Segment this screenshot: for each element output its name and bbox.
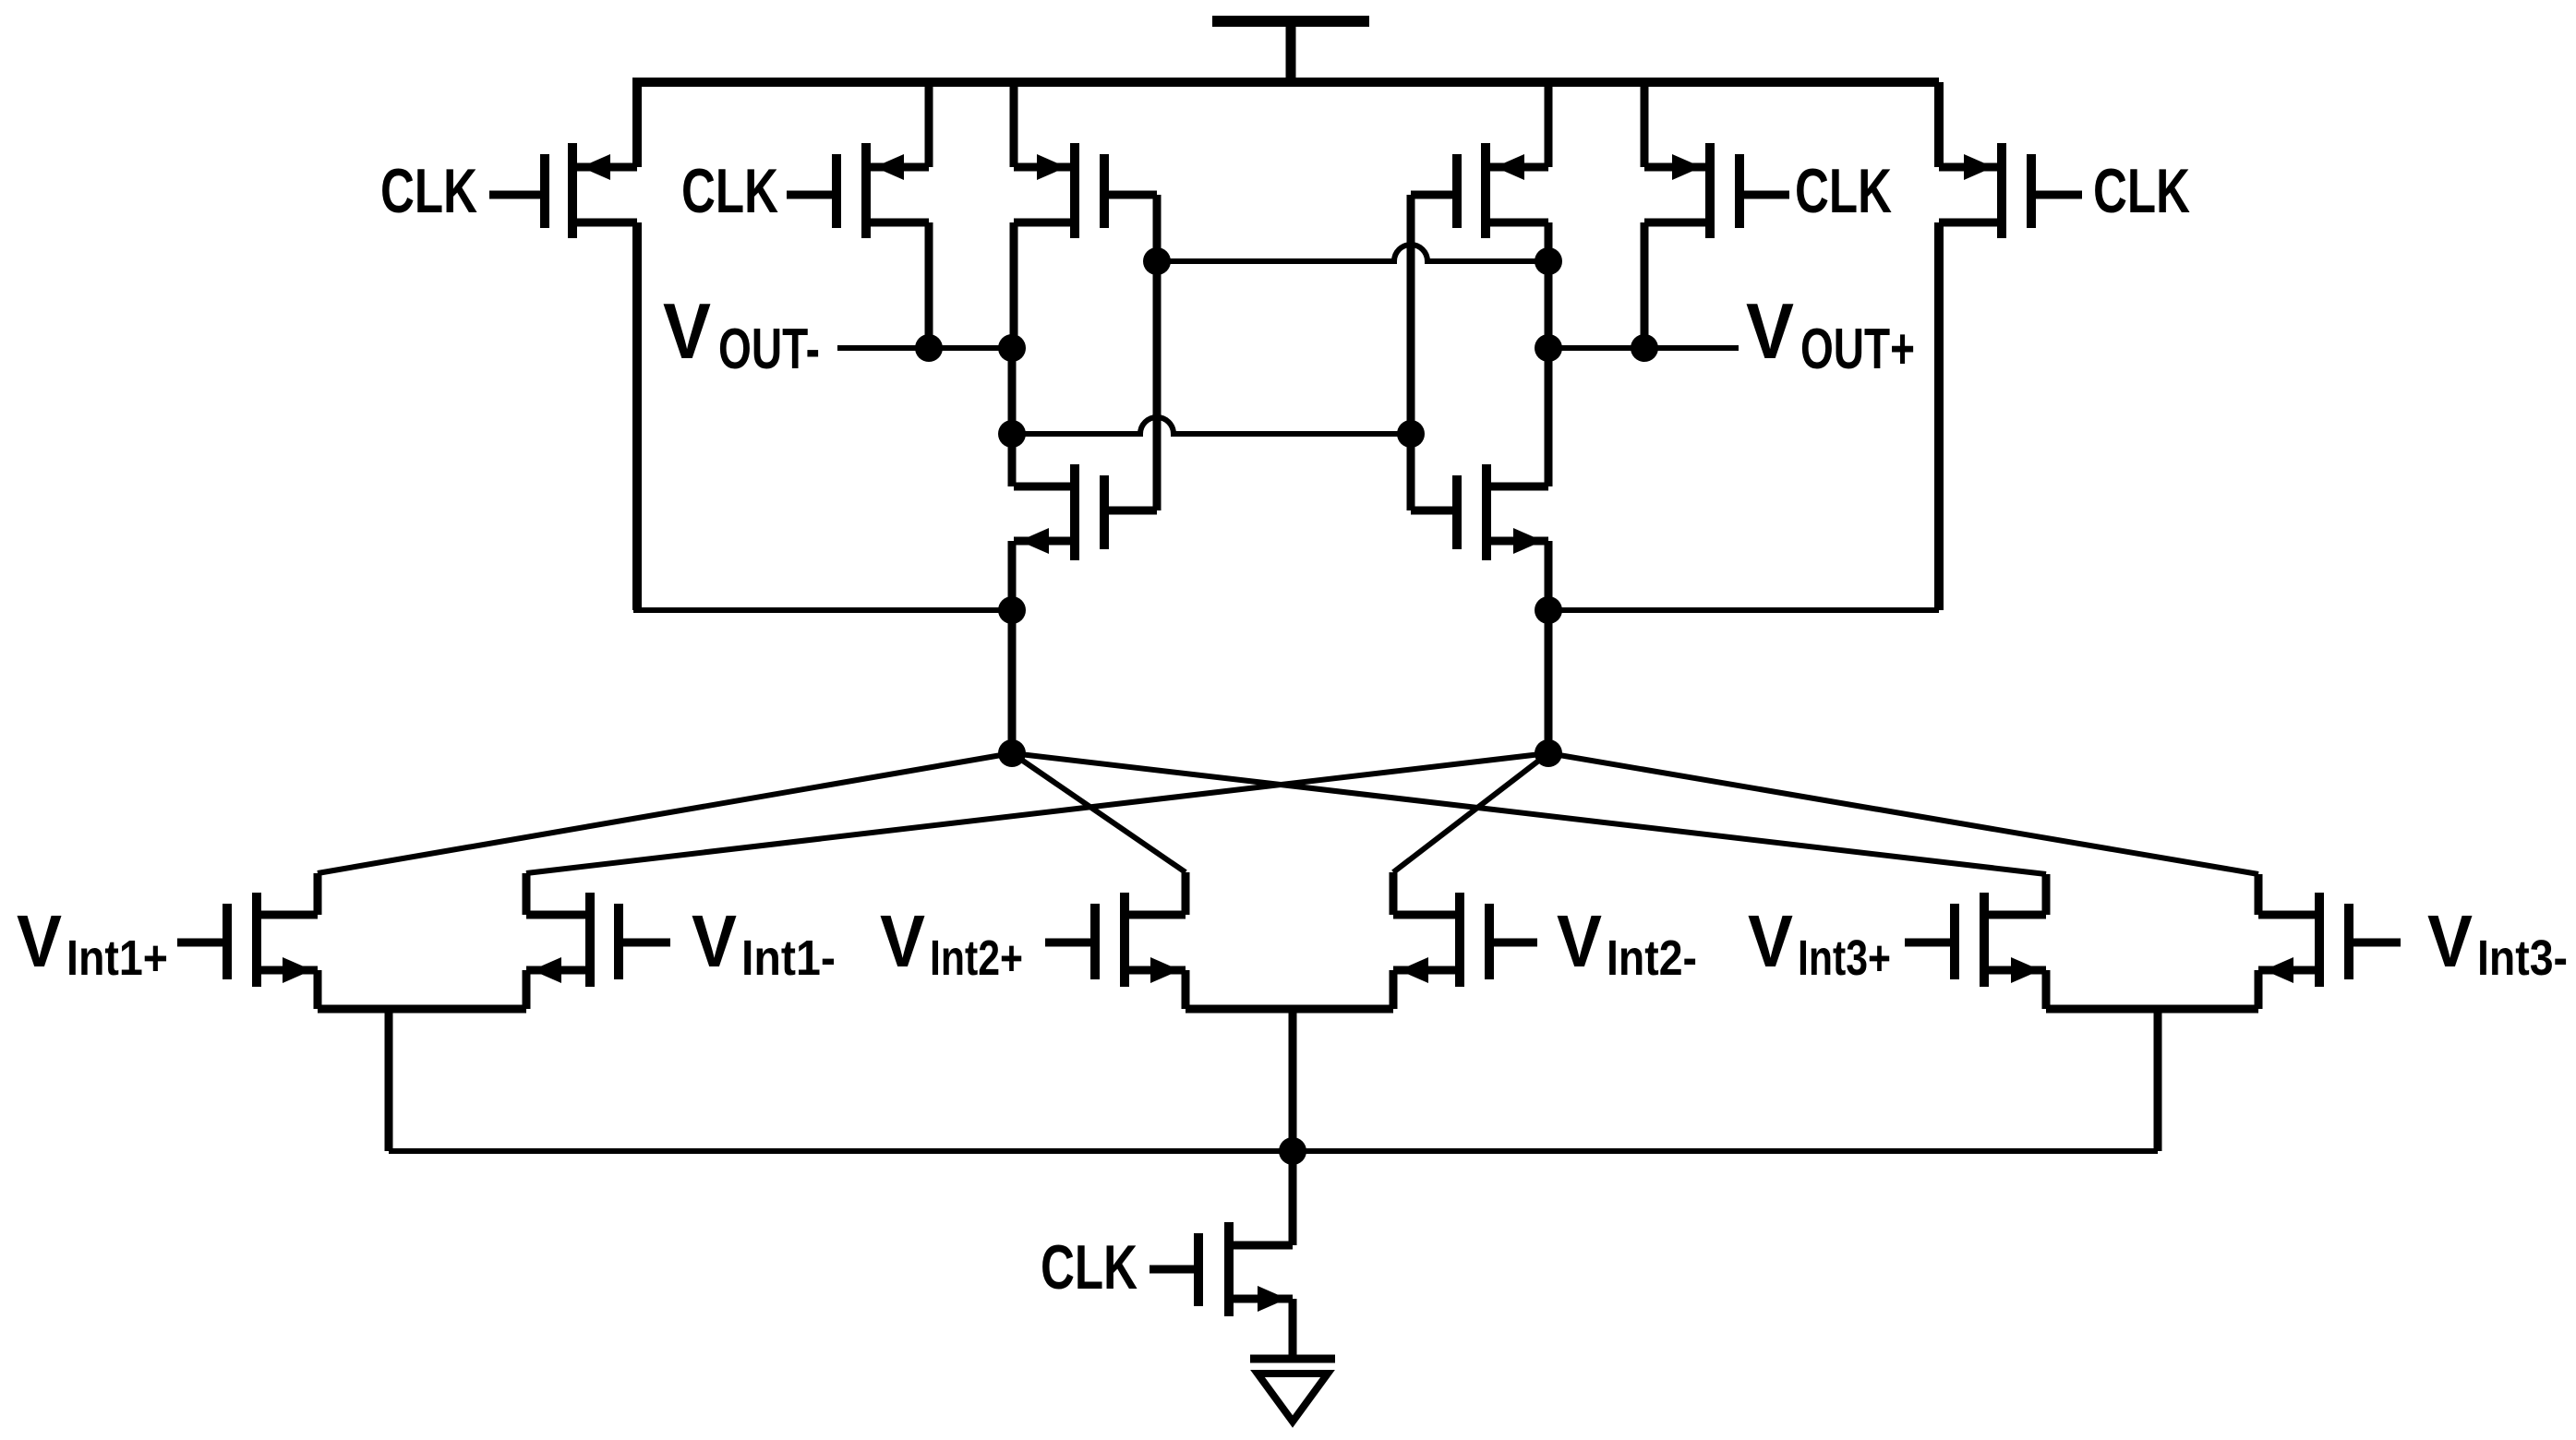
svg-text:Int3-: Int3- — [2477, 930, 2568, 986]
svg-text:Int3+: Int3+ — [1798, 930, 1891, 986]
svg-text:OUT+: OUT+ — [1800, 318, 1915, 381]
svg-text:V: V — [692, 900, 737, 982]
svg-text:Int1+: Int1+ — [66, 930, 168, 986]
svg-text:CLK: CLK — [380, 156, 477, 226]
svg-text:CLK: CLK — [2093, 156, 2190, 226]
svg-text:OUT-: OUT- — [718, 318, 820, 381]
svg-text:Int2+: Int2+ — [930, 930, 1023, 986]
svg-text:V: V — [1557, 900, 1602, 982]
svg-text:V: V — [17, 900, 62, 982]
svg-text:CLK: CLK — [681, 156, 778, 226]
svg-text:Int2-: Int2- — [1607, 930, 1697, 986]
svg-text:V: V — [880, 900, 925, 982]
svg-text:V: V — [663, 288, 711, 376]
svg-text:V: V — [1746, 288, 1794, 376]
svg-text:CLK: CLK — [1795, 156, 1892, 226]
svg-text:V: V — [2427, 900, 2473, 982]
svg-text:Int1-: Int1- — [741, 930, 836, 986]
svg-text:CLK: CLK — [1041, 1232, 1138, 1302]
svg-text:V: V — [1748, 900, 1793, 982]
